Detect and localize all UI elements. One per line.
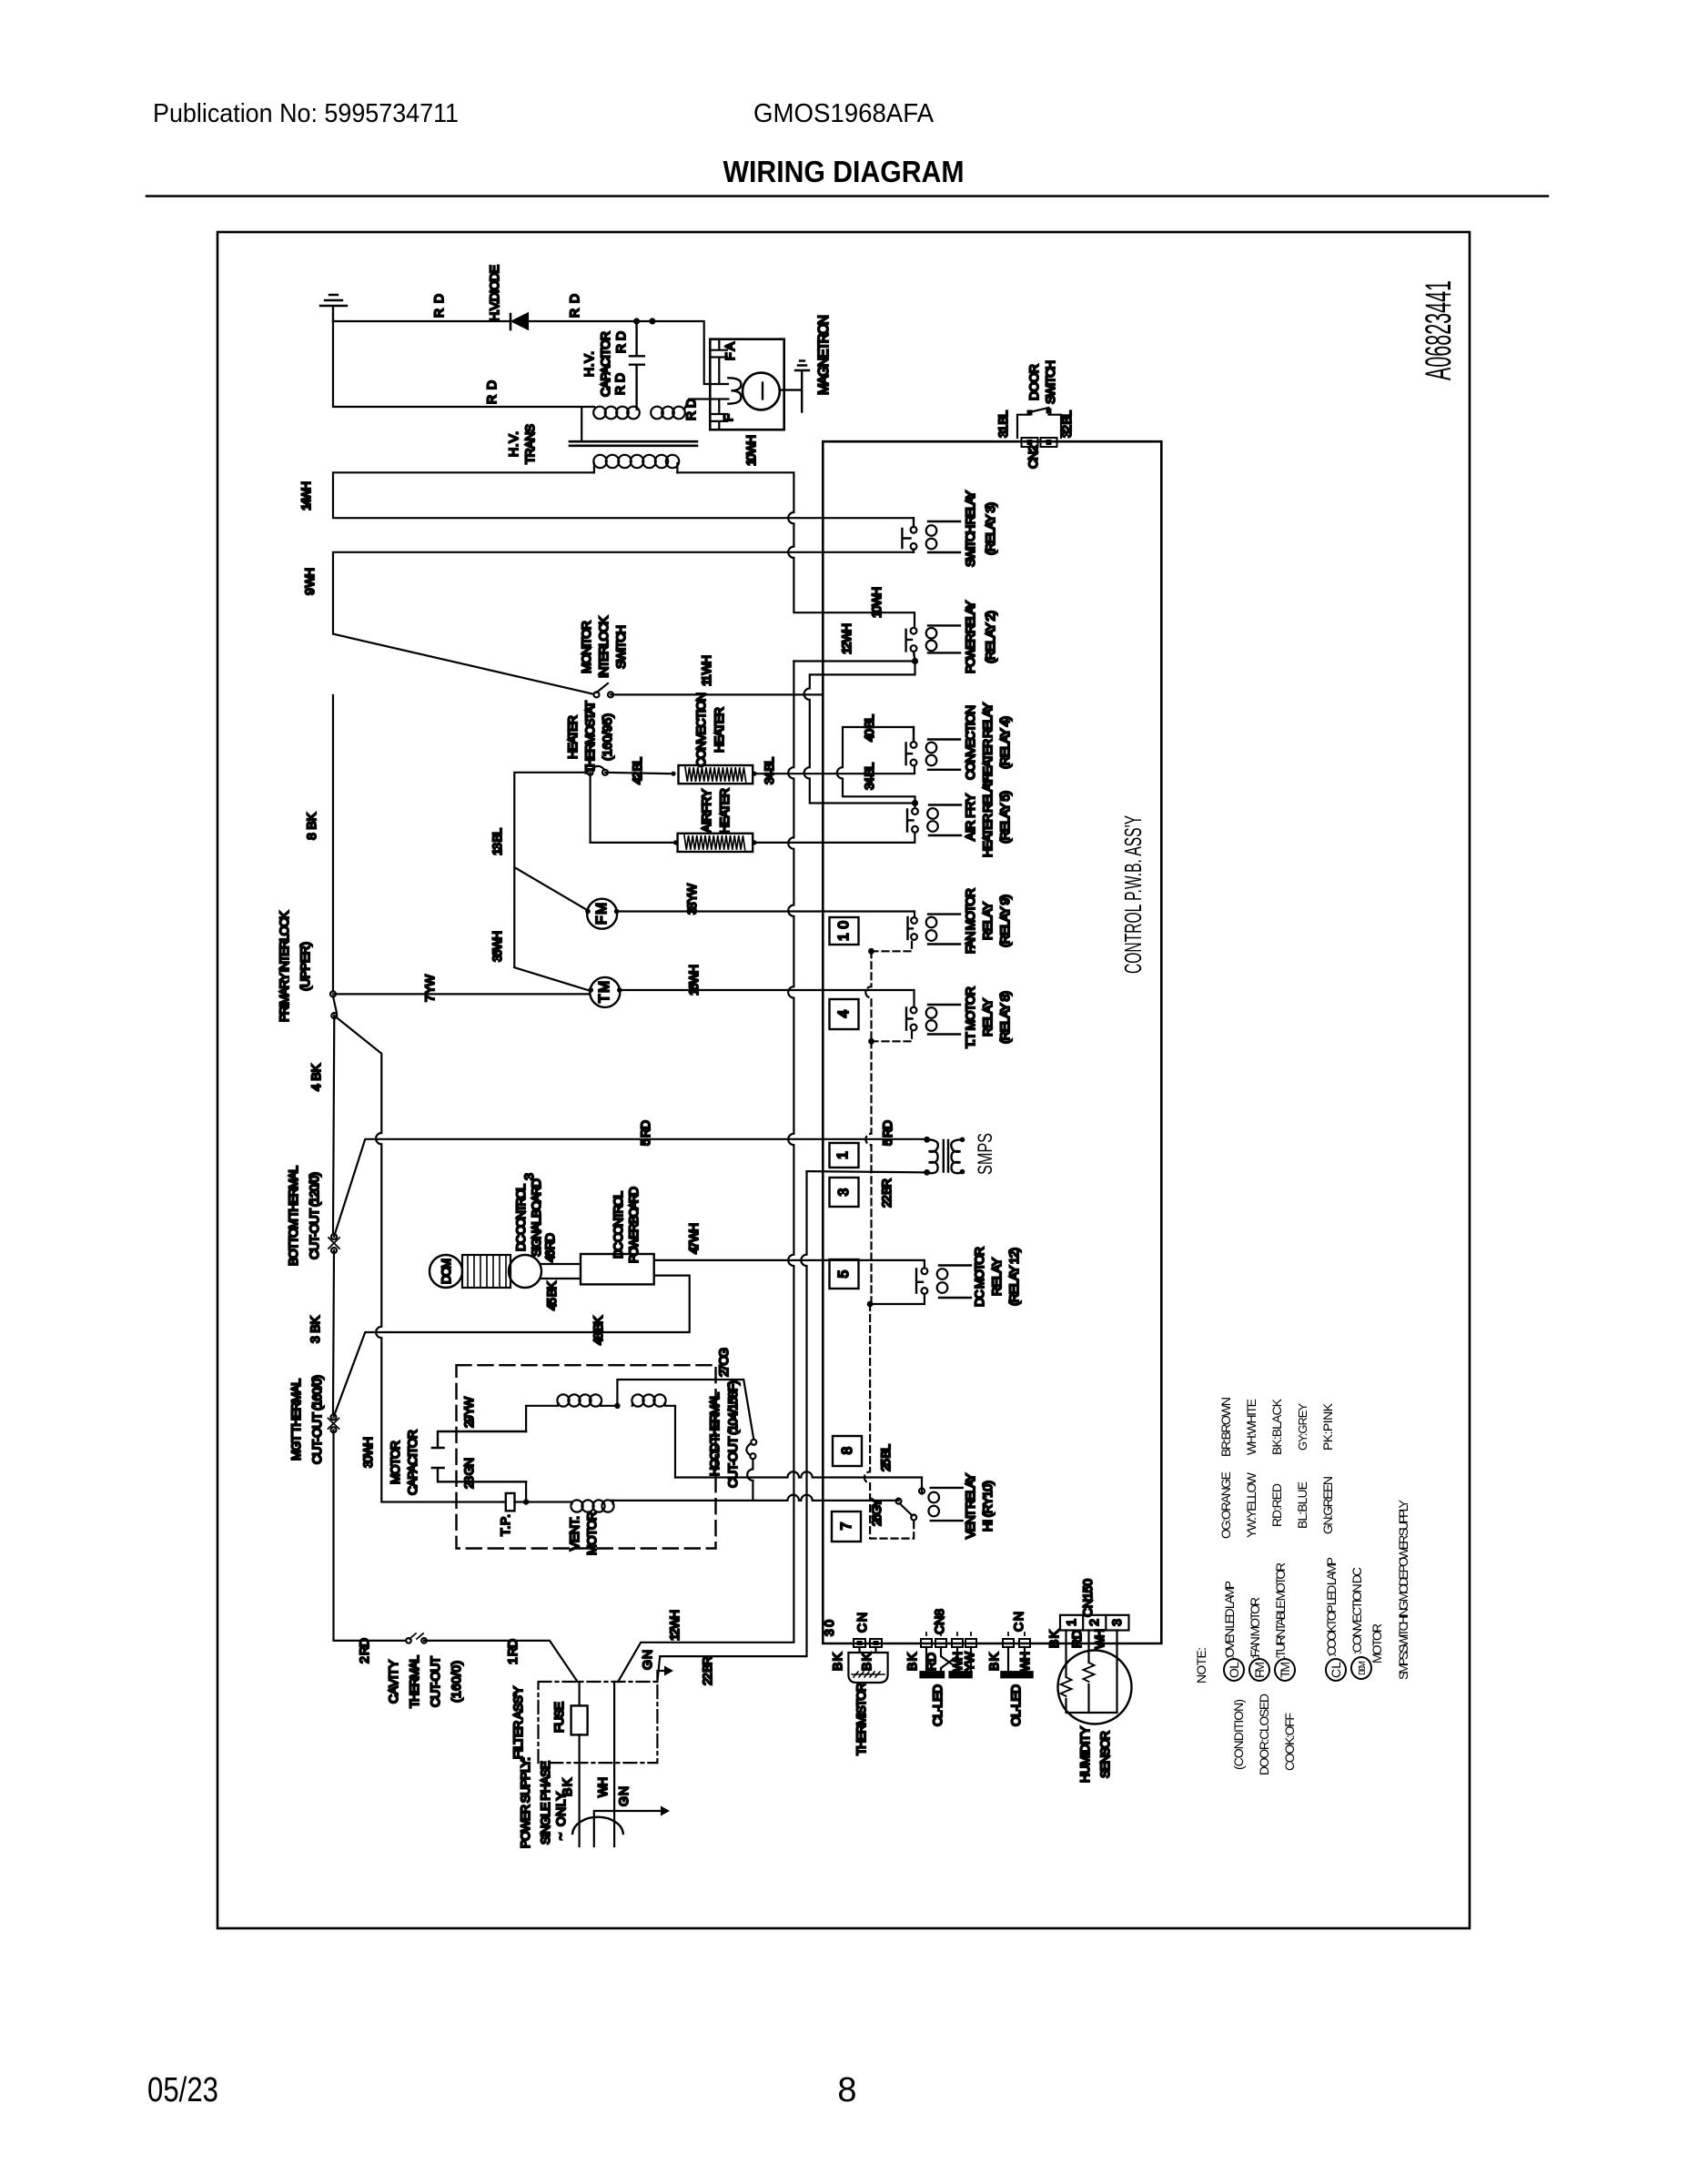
magnetron F feedthrough capacitor [712, 399, 727, 430]
svg-text:CUT-OUT (104/158F): CUT-OUT (104/158F) [725, 1380, 740, 1488]
svg-text:MGT THERMAL: MGT THERMAL [288, 1379, 303, 1461]
H.V. capacitor C1 [630, 321, 644, 407]
svg-text:2: 2 [1087, 1619, 1101, 1626]
wire 5RD to SMPS [334, 1139, 927, 1237]
svg-text:BK: BK [1046, 1629, 1061, 1648]
svg-text:3: 3 [521, 1173, 536, 1180]
thermistor body [860, 1647, 876, 1653]
svg-text:RELAY: RELAY [980, 997, 995, 1036]
svg-text:SIGNAL BOARD: SIGNAL BOARD [529, 1178, 543, 1257]
HV transformer filament winding [651, 407, 663, 420]
svg-text:SMPS: SMPS [974, 1133, 996, 1175]
pin box 5 [830, 1259, 859, 1289]
svg-text:(RELAY 4): (RELAY 4) [997, 716, 1012, 769]
vent motor aux winding [632, 1394, 643, 1406]
svg-text:28 GN: 28 GN [461, 1458, 476, 1489]
dashed common to relay9 [872, 940, 913, 951]
svg-text:5: 5 [836, 1270, 852, 1279]
svg-text:RD: RD [484, 380, 499, 404]
MGT thermal cut-out switch [331, 1414, 337, 1420]
cavity thermal cut-out switch [406, 1638, 411, 1643]
svg-text:13 BL: 13 BL [490, 828, 504, 855]
svg-text:CL-LED: CL-LED [930, 1684, 945, 1726]
vent relay coil [931, 1488, 963, 1521]
svg-text:BK:BLACK: BK:BLACK [1269, 1398, 1284, 1455]
svg-text:HEATER RELAY: HEATER RELAY [980, 776, 995, 857]
pin box 7 [832, 1512, 861, 1542]
ground chassis magnetron [795, 361, 809, 371]
svg-text:RELAY: RELAY [980, 901, 995, 940]
magnetron tube [743, 373, 780, 410]
pin box 8 [833, 1436, 862, 1466]
svg-text:SINGLE PHASE: SINGLE PHASE [538, 1761, 552, 1845]
svg-text:8: 8 [837, 2071, 856, 2109]
svg-text:CAPACITOR: CAPACITOR [405, 1430, 419, 1495]
svg-text:THERMOSTAT: THERMOSTAT [582, 701, 597, 773]
svg-text:PK:PINK: PK:PINK [1320, 1402, 1335, 1451]
svg-text:OL-LED: OL-LED [1008, 1684, 1023, 1726]
svg-text:MOTOR: MOTOR [388, 1441, 402, 1484]
heater thermostat [588, 770, 593, 775]
svg-text:GN: GN [616, 1786, 631, 1806]
wire WH to plug [613, 1763, 615, 1846]
svg-text:(160/0): (160/0) [449, 1661, 463, 1703]
svg-text:T.P.: T.P. [498, 1514, 512, 1536]
DCM coupling [509, 1255, 541, 1288]
wire common to relay12 [870, 1294, 925, 1304]
wire 3BK 48BK to DC power board [334, 1276, 690, 1418]
wire 45BK [541, 1278, 581, 1279]
svg-text:VENT.: VENT. [567, 1516, 581, 1551]
bottom thermal cut-out switch [331, 1234, 337, 1239]
svg-text:5 RD: 5 RD [638, 1120, 652, 1146]
wire BK to plug [578, 1763, 580, 1846]
wire 28GN to T.P. [525, 1481, 527, 1501]
svg-text:INTERLOCK: INTERLOCK [596, 615, 611, 678]
svg-text:WH: WH [1092, 1629, 1107, 1649]
junction relay2 bottom [912, 658, 918, 664]
wire 34BL convection heater to relay4 [753, 765, 915, 773]
wire 25BL to vent relay [675, 1471, 922, 1477]
svg-text:FM: FM [1252, 1662, 1267, 1678]
svg-text:RD: RD [431, 294, 446, 318]
relay 12 coil [939, 1266, 971, 1299]
wire chain bottom thermal to MGT [333, 1250, 334, 1414]
filter ground GN stub [657, 1671, 665, 1682]
legend TM turntable motor [1275, 1659, 1295, 1681]
svg-text:BK: BK [986, 1652, 1001, 1671]
svg-text:GMOS1968AFA: GMOS1968AFA [753, 99, 935, 128]
wire airfry heater to relay5 [753, 833, 915, 843]
wire airfry heater left leg [591, 773, 674, 843]
ground chassis top-left [320, 295, 347, 321]
wire 16WH TM to relay8 [620, 990, 915, 1007]
svg-text:HEATER: HEATER [712, 707, 726, 753]
svg-text:42 BL: 42 BL [630, 757, 644, 784]
HV transformer secondary winding left [592, 406, 594, 408]
svg-text:BR:BROWN: BR:BROWN [1218, 1397, 1233, 1457]
svg-text:CN2: CN2 [1026, 445, 1040, 469]
svg-text:RD: RD [924, 1653, 938, 1671]
dashed common line [865, 951, 871, 1041]
svg-text:WIRING DIAGRAM: WIRING DIAGRAM [723, 155, 965, 188]
svg-text:WH:WHITE: WH:WHITE [1244, 1399, 1258, 1455]
dashed common line to vent relay [864, 1304, 914, 1539]
humidity sensor element wires [1066, 1631, 1117, 1714]
svg-text:30 WH: 30 WH [360, 1437, 375, 1468]
vent relay switch [896, 1499, 902, 1504]
control board outline [823, 441, 1161, 1643]
svg-text:3 BK: 3 BK [308, 1315, 322, 1343]
svg-text:FM: FM [594, 903, 610, 925]
svg-text:OG:ORANGE: OG:ORANGE [1218, 1471, 1233, 1539]
svg-text:AIR FRY: AIR FRY [963, 793, 977, 841]
svg-text:DC MOTOR: DC MOTOR [972, 1247, 986, 1307]
svg-text:POWER RELAY: POWER RELAY [963, 600, 977, 673]
wire 46RD [541, 1263, 581, 1265]
svg-text:CN: CN [1011, 1612, 1026, 1632]
svg-text:THERMISTOR: THERMISTOR [854, 1683, 868, 1755]
svg-text:3: 3 [836, 1188, 852, 1197]
column B 22BR down to filter [657, 1171, 806, 1682]
CL-LED wires crossed [926, 1647, 971, 1671]
svg-text:CAVITY: CAVITY [386, 1659, 400, 1704]
svg-text:31 BL: 31 BL [996, 410, 1010, 438]
title rule [147, 195, 1548, 197]
pin box 1 [830, 1143, 859, 1168]
svg-text:(160/95): (160/95) [600, 713, 614, 761]
FM fan motor [587, 899, 617, 929]
wire 26GY hood cutout to vent relay [612, 1495, 898, 1501]
svg-text:12 WH: 12 WH [667, 1610, 682, 1641]
svg-text:10: 10 [836, 921, 852, 941]
svg-text:NOTE:: NOTE: [1194, 1647, 1208, 1683]
svg-text:33 YW: 33 YW [684, 883, 699, 915]
relay 12 contact [922, 1268, 928, 1274]
svg-text:FA: FA [723, 341, 737, 360]
svg-text:BK: BK [859, 1652, 874, 1671]
svg-text:(RELAY 8): (RELAY 8) [997, 991, 1012, 1044]
svg-text:45 BK: 45 BK [544, 1280, 559, 1310]
relay 4 coil [928, 740, 960, 770]
svg-text:FILTER ASS'Y: FILTER ASS'Y [510, 1685, 525, 1759]
TM turntable motor [590, 977, 620, 1007]
plug ground GN [594, 1811, 662, 1846]
magnetron box [710, 339, 783, 430]
wire 14WH [333, 472, 913, 518]
svg-text:CUT-OUT: CUT-OUT [428, 1656, 442, 1707]
legend DCM convection dc motor [1351, 1657, 1371, 1679]
svg-text:SMPS:SWITCHING MODE POWER SUPP: SMPS:SWITCHING MODE POWER SUPPLY [1396, 1499, 1410, 1680]
svg-text:HOOD THERMAL: HOOD THERMAL [707, 1392, 722, 1476]
wire 12WH relay2 bottom [793, 660, 915, 662]
svg-text::TURNTABLE MOTOR: :TURNTABLE MOTOR [1273, 1562, 1288, 1659]
airfry heater element [678, 834, 753, 852]
humidity sensor elements [1061, 1663, 1095, 1696]
legend OL oven led lamp [1224, 1659, 1244, 1681]
svg-text:HI (RY10): HI (RY10) [980, 1481, 995, 1532]
connector CN2 [1022, 438, 1038, 447]
svg-text:FUSE: FUSE [551, 1702, 566, 1733]
magnetron FA feedthrough capacitor [712, 339, 727, 384]
relay 4 contact [911, 742, 917, 748]
monitor interlock switch [594, 692, 600, 697]
svg-text:(RELAY 5): (RELAY 5) [997, 791, 1012, 844]
relay 5 coil [929, 805, 961, 836]
svg-text:BK: BK [905, 1652, 919, 1671]
wire 4BK interlock to vent motor [334, 1016, 502, 1501]
svg-text:GN: GN [640, 1650, 654, 1670]
CL-LED connector pads [921, 1639, 932, 1647]
svg-text:CONTROL P.W.B. ASS'Y: CONTROL P.W.B. ASS'Y [1119, 815, 1147, 974]
svg-text:DOOR: DOOR [1026, 364, 1041, 400]
wire 22BR SMPS return [807, 1171, 927, 1172]
svg-text:TM: TM [1278, 1662, 1292, 1678]
svg-text:34 BL: 34 BL [862, 763, 876, 790]
relay 3 coil [928, 521, 960, 552]
svg-text::COOKTOP LED LAMP: :COOKTOP LED LAMP [1324, 1557, 1339, 1657]
svg-text:CL: CL [1329, 1662, 1343, 1678]
svg-text::OVEN LED LAMP: :OVEN LED LAMP [1222, 1581, 1237, 1659]
svg-text:ONLY: ONLY [553, 1791, 568, 1826]
svg-text:CAPACITOR: CAPACITOR [598, 331, 612, 397]
svg-text:22 BR: 22 BR [700, 1656, 714, 1685]
svg-text:RD:RED: RD:RED [1269, 1483, 1284, 1527]
wire RD to HV transformer secondary [333, 321, 592, 440]
svg-text:YW:YELLOW: YW:YELLOW [1244, 1471, 1258, 1538]
wire 40BL relay4 top to relay5 top [837, 727, 915, 808]
svg-text:32 BL: 32 BL [1059, 410, 1074, 438]
svg-text:HUMIDITY: HUMIDITY [1077, 1725, 1092, 1783]
svg-text:GN:GREEN: GN:GREEN [1320, 1476, 1335, 1534]
thermistor connector pads [854, 1639, 865, 1647]
wire 29YW to vent motor main winding [526, 1406, 558, 1431]
svg-text:27 OG: 27 OG [716, 1348, 731, 1377]
HV transformer core [570, 441, 697, 446]
svg-text:SWITCH: SWITCH [1043, 360, 1057, 404]
svg-text:BK: BK [830, 1652, 844, 1671]
humidity sensor connector [1060, 1615, 1129, 1631]
wire transformer primary right to relay2 [677, 472, 915, 631]
hood thermal cut-out [751, 1440, 756, 1445]
junction relay5 top [912, 800, 918, 806]
wire 11WH monitor to board [611, 693, 823, 695]
svg-text:46 RD: 46 RD [542, 1233, 557, 1262]
legend FM fan motor [1249, 1659, 1269, 1681]
dashed common to relay8 [872, 1031, 913, 1042]
svg-text:HEATER RELAY: HEATER RELAY [980, 702, 995, 783]
svg-text:CUT-OUT (160/0): CUT-OUT (160/0) [309, 1375, 324, 1464]
svg-text:05/23: 05/23 [147, 2071, 218, 2109]
relay 2 coil [928, 625, 960, 652]
filter WH line [613, 1682, 615, 1763]
svg-text:8 BK: 8 BK [304, 812, 318, 840]
svg-text:A06823441: A06823441 [1419, 280, 1459, 380]
svg-text:RD: RD [683, 399, 698, 420]
wire 27OG tap [601, 1380, 753, 1440]
pin box 4 [830, 999, 859, 1029]
filter assy box [539, 1682, 658, 1763]
svg-text:HEATER: HEATER [717, 788, 732, 834]
svg-text:MOTOR: MOTOR [584, 1512, 599, 1555]
DC control power board [581, 1254, 654, 1284]
column A 12WH down to power entry [618, 662, 793, 1683]
svg-text:H.V.: H.V. [506, 431, 521, 457]
svg-text::CONVECTION DC: :CONVECTION DC [1349, 1567, 1364, 1654]
svg-text:CN: CN [854, 1613, 869, 1633]
DC convection motor DCM [430, 1255, 462, 1288]
svg-text:CN150: CN150 [1080, 1579, 1095, 1617]
svg-text:OL: OL [1227, 1662, 1241, 1678]
svg-text:GY:GREY: GY:GREY [1296, 1403, 1309, 1451]
svg-text:SWITCH: SWITCH [613, 625, 628, 669]
wire 33YW FM to relay9 [617, 912, 915, 918]
OL-LED connector pads [1003, 1639, 1014, 1647]
wire 42BL thermostat to convection heater [605, 773, 672, 773]
thermal protector T.P. [502, 1501, 526, 1502]
svg-text:AIRFRY: AIRFRY [699, 788, 713, 833]
svg-text:TM: TM [597, 981, 612, 1003]
door switch [1017, 415, 1061, 438]
svg-text:10 WH: 10 WH [869, 587, 884, 618]
svg-text:THERMAL: THERMAL [407, 1655, 421, 1708]
wire relay2 to relay5 top via column B [804, 662, 915, 804]
vent motor low winding [526, 1501, 571, 1502]
svg-text:11 WH: 11 WH [699, 655, 713, 686]
power plug [572, 1817, 623, 1834]
H.V. diode D1 [510, 314, 512, 329]
svg-text:(RELAY 12): (RELAY 12) [1006, 1248, 1021, 1306]
svg-text:CONVECTION: CONVECTION [693, 693, 708, 767]
svg-text:H.V.DIODE: H.V.DIODE [487, 265, 501, 321]
svg-text:POWER BOARD: POWER BOARD [626, 1187, 641, 1263]
relay 5 contact [912, 808, 918, 814]
svg-text:29 YW: 29 YW [461, 1396, 476, 1428]
svg-text:5 RD: 5 RD [880, 1120, 895, 1146]
relay 8 coil [928, 1005, 960, 1035]
svg-text:DCM: DCM [1358, 1661, 1368, 1675]
svg-text:RELAY: RELAY [989, 1257, 1004, 1296]
svg-text:9 WH: 9 WH [302, 568, 317, 595]
wire 13BL thermostat feed [514, 773, 590, 991]
schematic border frame [217, 232, 1470, 1928]
svg-text:POWER SUPPLY:: POWER SUPPLY: [518, 1757, 532, 1848]
svg-text:36 WH: 36 WH [490, 931, 504, 962]
svg-text:RD: RD [613, 331, 628, 353]
relay 3 contact [911, 527, 917, 533]
vent motor dashed enclosure [457, 1365, 716, 1548]
wire RD top HV [333, 321, 728, 384]
svg-text:MAGNETRON: MAGNETRON [816, 315, 832, 395]
convection heater element [679, 765, 753, 784]
svg-text:BL:BLUE: BL:BLUE [1295, 1481, 1309, 1529]
svg-text:RD: RD [567, 294, 581, 318]
svg-text:26 GY: 26 GY [869, 1498, 884, 1526]
SMPS transformer [924, 1137, 930, 1143]
svg-text:SWITCH RELAY: SWITCH RELAY [963, 490, 977, 567]
svg-text:T.T MOTOR: T.T MOTOR [963, 986, 977, 1048]
svg-text:RD: RD [612, 373, 627, 395]
svg-text:FAN MOTOR: FAN MOTOR [963, 888, 977, 954]
svg-text:DOOR:CLOSED: DOOR:CLOSED [1257, 1694, 1271, 1775]
primary interlock (upper) switch [330, 991, 336, 996]
svg-text:34 BL: 34 BL [762, 757, 776, 784]
motor capacitor [432, 1431, 526, 1481]
svg-text:BOTTOM THERMAL: BOTTOM THERMAL [286, 1166, 300, 1266]
svg-text:14WH: 14WH [298, 481, 313, 511]
svg-text:(RELAY 9): (RELAY 9) [997, 895, 1012, 947]
svg-text:16 WH: 16 WH [686, 965, 701, 996]
svg-text:(CONDITION): (CONDITION) [1231, 1699, 1246, 1770]
svg-text:1: 1 [835, 1151, 851, 1159]
HV transformer primary winding [594, 463, 678, 472]
svg-text:MONITOR: MONITOR [579, 621, 593, 673]
legend CL cooktop led lamp [1326, 1659, 1346, 1681]
wire 1RD to filter [424, 1641, 578, 1682]
pin box 3 [830, 1178, 859, 1207]
svg-text:25 BL: 25 BL [878, 1444, 893, 1471]
svg-text:VENT RELAY: VENT RELAY [963, 1472, 977, 1539]
svg-text:48 BK: 48 BK [591, 1315, 605, 1345]
svg-text:DC CONTROL: DC CONTROL [611, 1191, 625, 1259]
DC control signal board [462, 1255, 510, 1288]
svg-text:F: F [721, 414, 735, 422]
svg-text:3: 3 [1109, 1619, 1124, 1626]
svg-text:12 WH: 12 WH [839, 623, 854, 654]
magnetron filament coil [728, 378, 741, 403]
svg-text:MOTOR: MOTOR [1370, 1623, 1384, 1663]
wire 47WH to relay12 [654, 1260, 925, 1269]
svg-text:1: 1 [1064, 1619, 1078, 1626]
svg-text:7 YW: 7 YW [422, 974, 437, 1002]
svg-text:Publication No: 5995734711: Publication No: 5995734711 [153, 99, 459, 128]
wire interlock chain down [333, 1016, 334, 1234]
relay 8 contact [911, 1007, 917, 1014]
relay 2 contact [911, 628, 917, 634]
svg-text:H.V.: H.V. [581, 351, 596, 377]
svg-text:4: 4 [836, 1009, 852, 1017]
svg-text:CUT-OUT (120/0): CUT-OUT (120/0) [307, 1172, 321, 1259]
wire 9WH [333, 552, 913, 695]
wire 7YW interlock to TM [333, 993, 590, 995]
humidity sensor circle [1058, 1651, 1132, 1724]
svg-text:CONVECTION: CONVECTION [963, 705, 977, 780]
vent motor main winding [557, 1394, 569, 1406]
relay 9 contact [911, 917, 917, 924]
svg-text:TRANS: TRANS [522, 424, 537, 464]
svg-text:~: ~ [553, 1833, 568, 1840]
svg-text:PRIMARY INTERLOCK: PRIMARY INTERLOCK [277, 910, 291, 1022]
wire chain MGT to cavity cut-out [334, 1430, 407, 1641]
dashed common line [865, 1041, 871, 1304]
fuse [578, 1682, 580, 1763]
CL-LED bodies [919, 1671, 945, 1678]
svg-text:COOK:OFF: COOK:OFF [1282, 1713, 1297, 1771]
junction node [649, 318, 655, 324]
relay 9 coil [928, 915, 960, 945]
svg-text:22 BR: 22 BR [879, 1178, 894, 1208]
svg-text:4 BK: 4 BK [308, 1063, 323, 1091]
svg-text:2 RD: 2 RD [357, 1638, 371, 1663]
svg-text:YW: YW [962, 1651, 976, 1672]
svg-text:RD: RD [1069, 1630, 1084, 1648]
svg-text:(RELAY 3): (RELAY 3) [983, 502, 997, 555]
svg-text:(RELAY 2): (RELAY 2) [983, 611, 997, 663]
wire 8BK interlock chain [333, 694, 596, 994]
svg-text:7: 7 [839, 1522, 854, 1531]
svg-text:10 WH: 10 WH [743, 435, 758, 466]
svg-text:HEATER: HEATER [565, 715, 580, 759]
